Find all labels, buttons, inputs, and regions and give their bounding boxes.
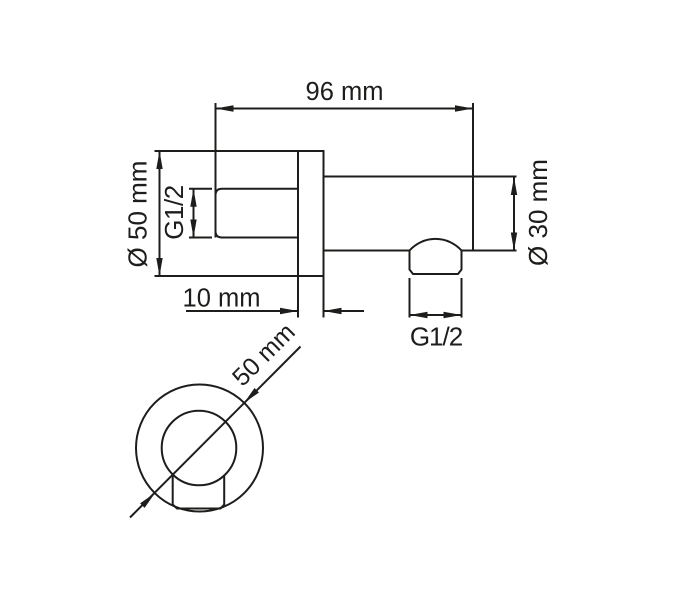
dimension line 96 mm	[216, 108, 474, 110]
arrowhead Ø30 bottom	[511, 233, 517, 251]
arrowhead 50mm lower-left	[140, 493, 155, 508]
svg-text:96 mm: 96 mm	[306, 78, 384, 106]
G1/2 extension stub top	[189, 188, 212, 190]
outlet nut side view	[410, 251, 462, 275]
inlet pipe G1/2 body	[216, 189, 299, 238]
G1/2 outlet left extension line	[409, 278, 411, 318]
diagonal dimension line 50 mm	[130, 347, 301, 518]
body top edge + Ø30 top extension	[324, 176, 517, 178]
outlet dome arc	[410, 239, 462, 251]
front view outer circle Ø50	[136, 385, 263, 512]
body bottom edge right part + Ø30 bottom extension	[462, 250, 517, 252]
arrowhead 50mm upper-right	[244, 388, 259, 403]
arrowhead G1/2 outlet left	[410, 312, 428, 318]
dimension line Ø30	[513, 177, 515, 251]
arrowhead G1/2 outlet right	[444, 312, 462, 318]
dimension line Ø50	[159, 151, 161, 276]
svg-text:Ø 30 mm: Ø 30 mm	[523, 159, 553, 266]
arrowhead G1/2 inlet top	[190, 189, 196, 207]
G1/2 extension stub bottom	[189, 237, 212, 239]
svg-text:Ø 50 mm: Ø 50 mm	[123, 161, 153, 268]
arrowhead Ø50 top	[156, 151, 162, 169]
dimension line 10 mm right part	[324, 310, 365, 312]
dimension line Ø50 top extension	[155, 150, 300, 152]
body bottom edge left part	[324, 250, 410, 252]
front view inner circle Ø30	[162, 411, 237, 486]
svg-text:50 mm: 50 mm	[227, 318, 301, 392]
dimension line G1/2 inlet	[193, 189, 195, 238]
svg-text:G1/2: G1/2	[159, 185, 189, 239]
flange left extension line (10mm)	[297, 276, 299, 318]
arrowhead Ø30 top	[511, 177, 517, 195]
inlet pipe left edge / 96mm left extension line	[215, 103, 217, 238]
svg-text:G1/2: G1/2	[410, 322, 463, 352]
arrowhead 96mm right	[455, 105, 473, 111]
flange right extension line (10mm)	[323, 276, 325, 318]
dimension line 10 mm left part	[186, 310, 298, 312]
wall flange rectangle	[298, 151, 324, 276]
arrowhead 10mm right (points left)	[324, 308, 342, 314]
svg-text:10 mm: 10 mm	[183, 285, 261, 313]
dimension line Ø50 bottom extension	[155, 275, 300, 277]
arrowhead 10mm left (points right)	[280, 308, 298, 314]
arrowhead Ø50 bottom	[156, 258, 162, 276]
arrowhead 96mm left	[216, 105, 234, 111]
front view nut outline	[173, 475, 225, 509]
body right edge + 96mm right extension	[472, 103, 474, 251]
arrowhead G1/2 inlet bottom	[190, 220, 196, 238]
dimension line G1/2 outlet	[410, 314, 462, 316]
G1/2 outlet right extension line	[461, 278, 463, 318]
